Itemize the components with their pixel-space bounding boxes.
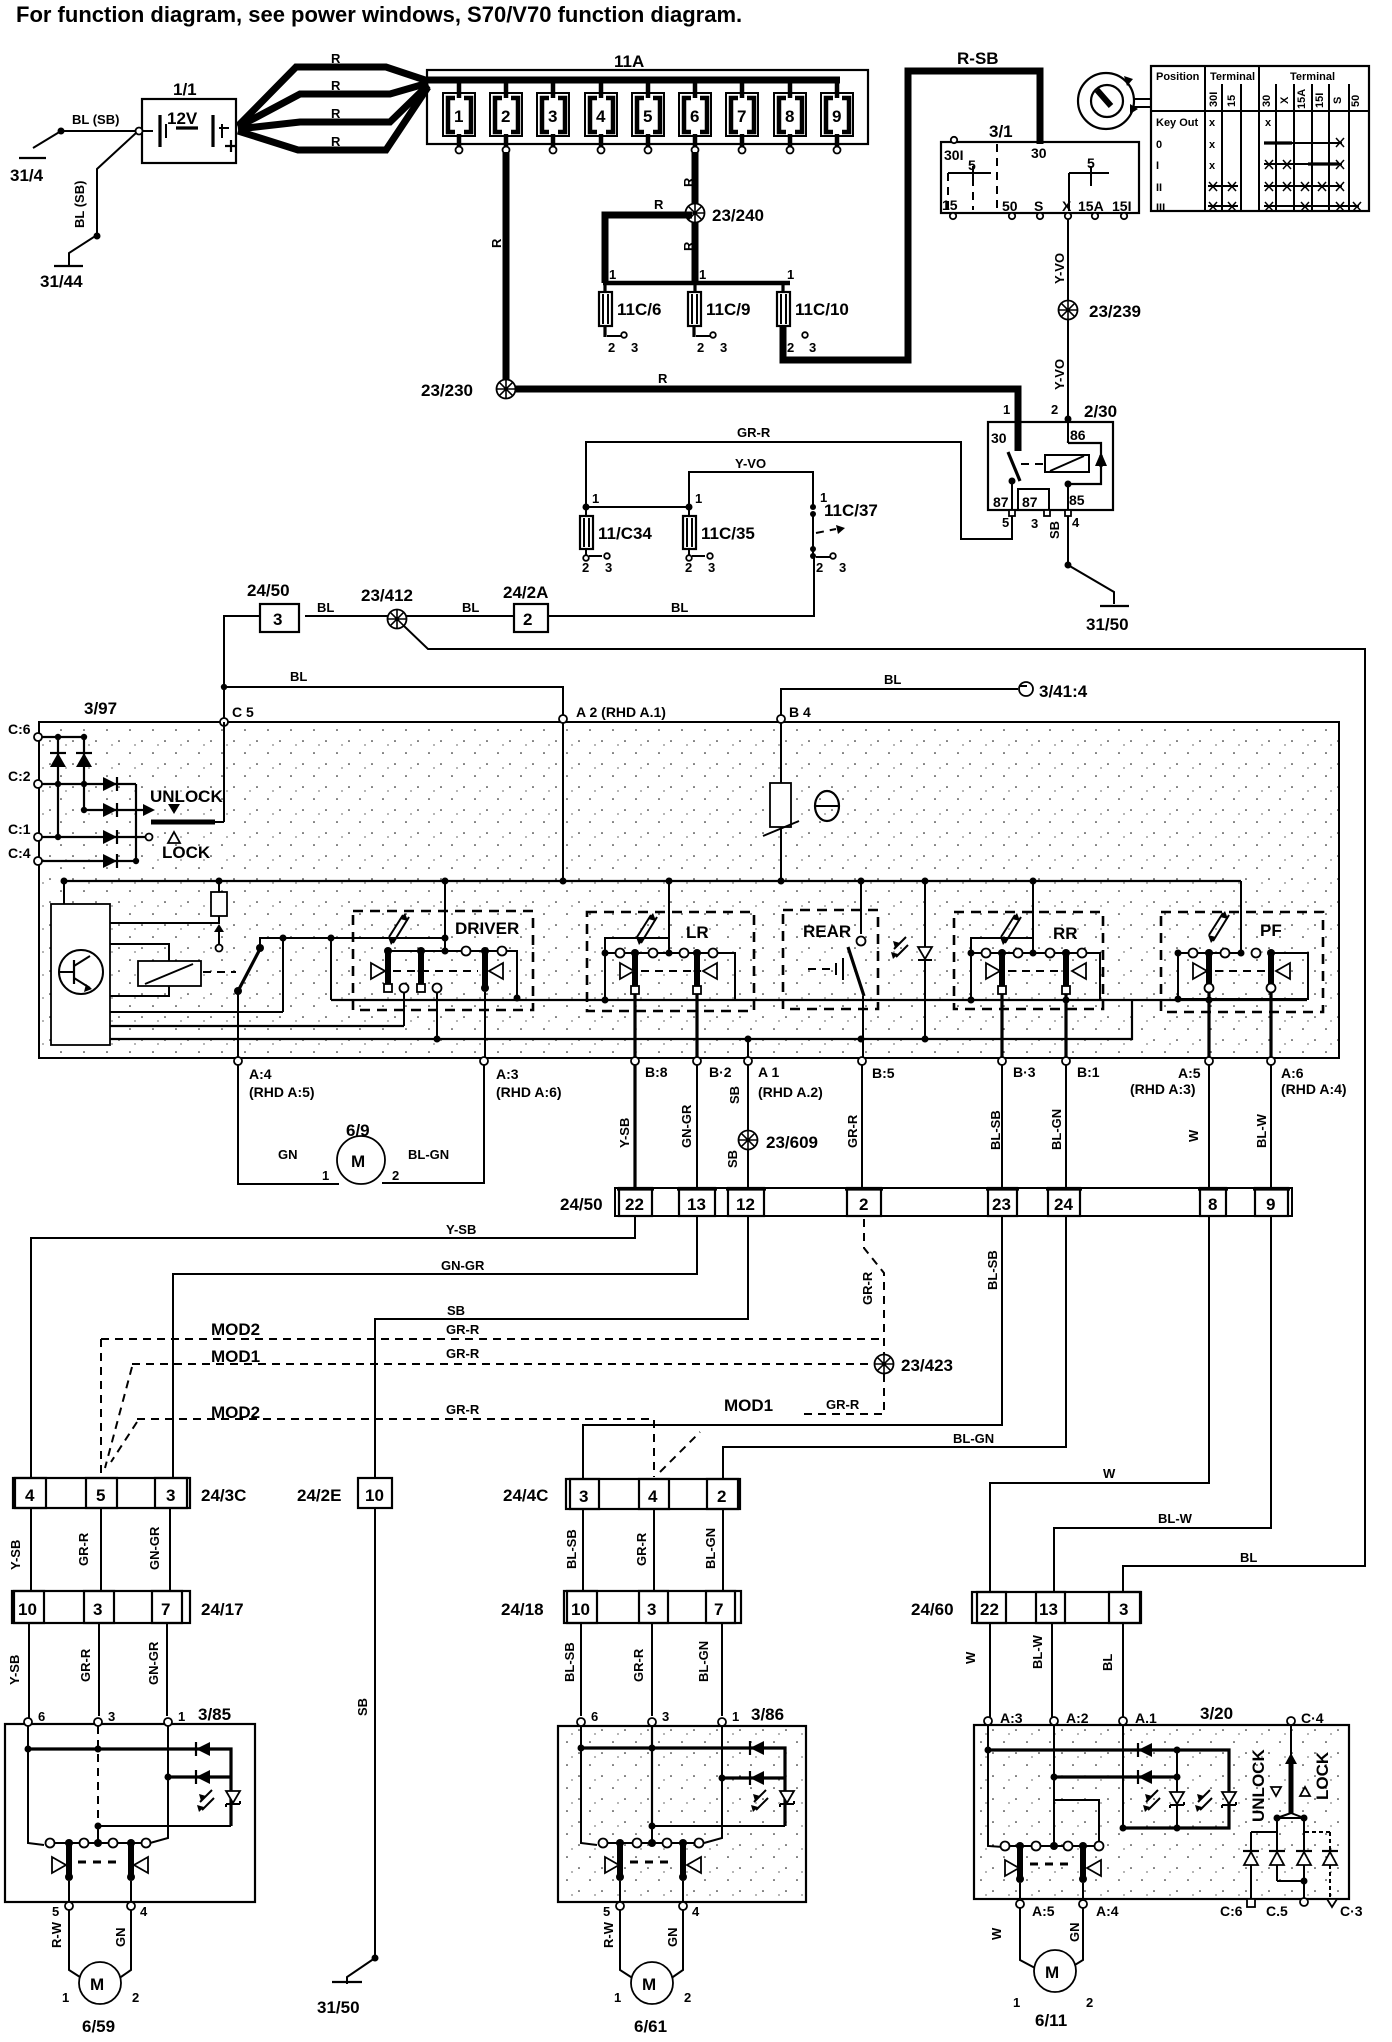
svg-text:SB: SB — [355, 1698, 370, 1716]
svg-text:C:1: C:1 — [8, 821, 31, 837]
svg-text:R-SB: R-SB — [957, 49, 999, 68]
pin B:1 — [1062, 1057, 1100, 1080]
svg-text:A:4: A:4 — [1096, 1903, 1119, 1919]
DRIVER switch — [353, 881, 533, 1058]
svg-text:BL: BL — [884, 672, 901, 687]
svg-text:R: R — [658, 371, 668, 386]
svg-text:SB: SB — [1047, 521, 1062, 539]
svg-text:1: 1 — [62, 1990, 69, 2005]
svg-text:23/609: 23/609 — [766, 1133, 818, 1152]
svg-text:24: 24 — [1054, 1195, 1073, 1214]
svg-text:2: 2 — [523, 610, 532, 629]
splice 23/239 — [1059, 301, 1142, 322]
svg-text:III: III — [1156, 202, 1165, 214]
svg-text:C:4: C:4 — [8, 845, 31, 861]
svg-text:4: 4 — [140, 1904, 148, 1919]
svg-text:3/1: 3/1 — [989, 122, 1013, 141]
wire R-SB from 11C/10 up to 3/1 term 30 — [783, 49, 1040, 360]
connector 24/2A pin 2 — [503, 583, 548, 632]
svg-text:13: 13 — [1039, 1600, 1058, 1619]
svg-text:2: 2 — [132, 1990, 139, 2005]
svg-text:15: 15 — [1226, 95, 1238, 107]
svg-text:M: M — [351, 1152, 365, 1171]
svg-text:C:6: C:6 — [1220, 1903, 1243, 1919]
svg-text:9: 9 — [1266, 1195, 1275, 1214]
svg-text:PF: PF — [1260, 921, 1282, 940]
diode D5 right — [103, 830, 117, 844]
wire BL (SB) to 31/4 — [33, 112, 135, 148]
switch contacts 3/85 — [46, 1839, 151, 1920]
svg-text:1/1: 1/1 — [173, 80, 197, 99]
svg-text:GN-GR: GN-GR — [679, 1104, 694, 1148]
svg-text:30I: 30I — [1208, 92, 1220, 107]
splice 23/240 — [686, 204, 765, 226]
svg-text:3: 3 — [1031, 516, 1038, 531]
svg-text:BL: BL — [671, 600, 688, 615]
wires 24/4C to 24/18 — [564, 1509, 723, 1591]
svg-text:C·4: C·4 — [1301, 1710, 1324, 1726]
svg-text:7: 7 — [161, 1600, 170, 1619]
pin C:4 — [8, 845, 42, 865]
svg-text:30I: 30I — [944, 147, 963, 163]
svg-text:R: R — [331, 106, 341, 121]
svg-text:GR-R: GR-R — [826, 1397, 860, 1412]
wire 11/C34 to 11C/35 pin1 — [586, 506, 689, 508]
zener 3/20 a — [1143, 1790, 1184, 1812]
MOD1 leader — [660, 1374, 884, 1472]
svg-text:(RHD A.2): (RHD A.2) — [758, 1084, 823, 1100]
svg-text:1: 1 — [732, 1709, 739, 1724]
svg-text:15A: 15A — [1078, 198, 1104, 214]
svg-text:GR-R: GR-R — [845, 1114, 860, 1148]
splice 23/423 — [875, 1355, 954, 1376]
module 3/20 — [974, 1704, 1349, 1899]
svg-text:2: 2 — [582, 560, 589, 575]
ignition switch 3/1 — [941, 122, 1139, 219]
fuse 7 — [726, 78, 758, 154]
svg-text:3: 3 — [605, 560, 612, 575]
key switch arm — [234, 935, 449, 1013]
svg-text:2: 2 — [501, 107, 510, 126]
svg-text:BL-W: BL-W — [1254, 1113, 1269, 1148]
fuse 5 — [632, 78, 664, 154]
svg-text:DRIVER: DRIVER — [455, 919, 519, 938]
svg-text:BL-W: BL-W — [1158, 1511, 1193, 1526]
pins C:6 C.5 C:3 — [1220, 1898, 1363, 1919]
wire BL 24/50 to C5 / A2 — [221, 600, 563, 722]
svg-text:R: R — [331, 51, 341, 66]
svg-text:5: 5 — [643, 107, 652, 126]
svg-text:BL-SB: BL-SB — [988, 1110, 1003, 1150]
wire GR-R B:5 to 24/50 — [845, 1065, 862, 1188]
svg-text:UNLOCK: UNLOCK — [1249, 1749, 1268, 1822]
wire R fuse6 down — [681, 152, 696, 283]
connector 24/60 — [911, 1592, 1141, 1623]
svg-text:BL-SB: BL-SB — [985, 1250, 1000, 1290]
svg-text:3/20: 3/20 — [1200, 1704, 1233, 1723]
svg-text:24/2A: 24/2A — [503, 583, 548, 602]
fuse 8 — [774, 78, 806, 154]
svg-text:W: W — [1103, 1466, 1116, 1481]
svg-text:4: 4 — [692, 1904, 700, 1919]
svg-text:50: 50 — [1002, 198, 1018, 214]
wire Y-VO loop — [689, 456, 813, 507]
node C5 — [220, 704, 254, 726]
svg-text:A:3: A:3 — [496, 1066, 519, 1082]
svg-text:11C/9: 11C/9 — [706, 300, 750, 319]
svg-text:GR-R: GR-R — [737, 425, 771, 440]
svg-text:GR-R: GR-R — [76, 1532, 91, 1566]
svg-text:6: 6 — [38, 1709, 45, 1724]
svg-text:8: 8 — [785, 107, 794, 126]
diode D3 right — [103, 777, 117, 791]
svg-text:31/44: 31/44 — [40, 272, 83, 291]
diode matrix rows — [42, 734, 148, 864]
wire BL-GN 24/50 to 24/4C — [723, 1216, 1066, 1478]
svg-text:C:2: C:2 — [8, 768, 31, 784]
svg-text:S: S — [1034, 198, 1043, 214]
svg-text:5: 5 — [52, 1904, 59, 1919]
svg-text:S: S — [1332, 97, 1344, 104]
svg-text:85: 85 — [1069, 492, 1085, 508]
diode D2 up — [76, 753, 92, 767]
motor 6/61 — [601, 1910, 691, 2036]
svg-text:1: 1 — [609, 267, 616, 282]
svg-text:A 1: A 1 — [758, 1064, 779, 1080]
connector 24/4C — [503, 1479, 740, 1509]
connector 11C/10 — [777, 283, 849, 355]
svg-text:x: x — [1209, 139, 1216, 151]
svg-text:5: 5 — [603, 1904, 610, 1919]
svg-text:BL: BL — [317, 600, 334, 615]
wire battery to fusebox (4 thick R wires) — [238, 51, 428, 150]
ground 31/50 top — [1086, 606, 1129, 634]
svg-text:1: 1 — [614, 1990, 621, 2005]
svg-text:9: 9 — [832, 107, 841, 126]
svg-text:15A: 15A — [1296, 89, 1308, 109]
fuse 9 — [821, 78, 853, 154]
svg-text:R-W: R-W — [49, 1921, 64, 1948]
svg-text:4: 4 — [648, 1487, 658, 1506]
svg-text:4: 4 — [1072, 515, 1080, 530]
module 3/86 — [558, 1705, 806, 1902]
svg-text:M: M — [642, 1975, 656, 1994]
LR switch — [587, 881, 754, 1058]
pin B:5 — [858, 1057, 895, 1081]
svg-text:M: M — [1045, 1963, 1059, 1982]
svg-text:C.5: C.5 — [1266, 1903, 1288, 1919]
svg-text:X: X — [1279, 96, 1291, 104]
svg-text:C 5: C 5 — [232, 704, 254, 720]
wire GR-R dashed 24/50 pin2 — [860, 1219, 884, 1354]
svg-text:7: 7 — [737, 107, 746, 126]
wire BL-GN B:1 to 24/50 — [1049, 1065, 1066, 1188]
svg-text:A:6: A:6 — [1281, 1065, 1304, 1081]
svg-text:C:6: C:6 — [8, 721, 31, 737]
svg-text:3: 3 — [708, 560, 715, 575]
wire A2 down to bus — [562, 723, 564, 881]
svg-text:13: 13 — [687, 1195, 706, 1214]
lock lever 3/20 — [1249, 1725, 1332, 1822]
connector 24/17 — [12, 1591, 244, 1623]
svg-text:3: 3 — [647, 1600, 656, 1619]
svg-text:A.1: A.1 — [1135, 1710, 1157, 1726]
pin A:3 — [480, 1057, 562, 1100]
wire Y-SB 24/50 to 24/3C — [31, 1216, 635, 1478]
battery 1/1 — [136, 80, 238, 163]
svg-text:3: 3 — [108, 1709, 115, 1724]
pin B:8 — [631, 1057, 668, 1080]
relay 2/30 — [988, 402, 1117, 531]
zener 3/20 b — [1195, 1790, 1236, 1812]
svg-text:W: W — [989, 1927, 1004, 1940]
MOD2 row 1 — [101, 1320, 884, 1478]
svg-text:GR-R: GR-R — [446, 1402, 480, 1417]
svg-text:0: 0 — [1156, 139, 1162, 151]
diode 3/85 top — [196, 1742, 210, 1756]
ground 31/50 bottom — [317, 1982, 362, 2017]
svg-text:W: W — [1186, 1129, 1201, 1142]
svg-text:MOD2: MOD2 — [211, 1320, 260, 1339]
pin C:2 — [8, 768, 42, 788]
svg-text:3: 3 — [273, 610, 282, 629]
svg-text:3: 3 — [720, 340, 727, 355]
svg-text:50: 50 — [1350, 95, 1362, 107]
svg-text:2: 2 — [608, 340, 615, 355]
bottom line L3 — [110, 1000, 1132, 1043]
svg-text:2: 2 — [1086, 1995, 1093, 2010]
key cylinder box — [51, 881, 110, 1045]
svg-text:24/50: 24/50 — [560, 1195, 603, 1214]
svg-text:BL-SB: BL-SB — [564, 1529, 579, 1569]
diode array 3/20 d1 — [1243, 1832, 1277, 1899]
svg-text:2: 2 — [816, 560, 823, 575]
svg-text:2/30: 2/30 — [1084, 402, 1117, 421]
ground 31/4 — [10, 158, 46, 185]
svg-text:2: 2 — [859, 1195, 868, 1214]
svg-text:BL-W: BL-W — [1030, 1634, 1045, 1669]
node A2 — [559, 704, 666, 723]
pin A:6 — [1267, 1057, 1347, 1097]
svg-text:2: 2 — [685, 560, 692, 575]
svg-text:SB: SB — [447, 1303, 465, 1318]
motor 6/59 — [49, 1910, 139, 2036]
svg-text:B:1: B:1 — [1077, 1064, 1100, 1080]
svg-text:Y-VO: Y-VO — [735, 456, 766, 471]
svg-text:31/50: 31/50 — [317, 1998, 360, 2017]
svg-text:I: I — [1156, 160, 1159, 172]
svg-text:2: 2 — [1051, 402, 1058, 417]
svg-text:II: II — [1156, 182, 1162, 194]
svg-text:GN: GN — [278, 1147, 298, 1162]
diode 3/85 mid — [196, 1770, 210, 1784]
svg-text:BL-GN: BL-GN — [703, 1528, 718, 1569]
svg-text:Y-SB: Y-SB — [7, 1655, 22, 1685]
svg-text:GN-GR: GN-GR — [147, 1526, 162, 1570]
svg-text:15I: 15I — [1314, 93, 1326, 108]
svg-text:A:4: A:4 — [249, 1066, 272, 1082]
svg-text:11/C34: 11/C34 — [598, 524, 652, 543]
RR switch — [954, 881, 1103, 1058]
wire W 24/50 to 24/60 — [990, 1216, 1209, 1592]
wire BL (SB) to 31/44 — [69, 133, 136, 266]
svg-text:(RHD A:3): (RHD A:3) — [1130, 1081, 1196, 1097]
svg-text:24/17: 24/17 — [201, 1600, 244, 1619]
svg-text:BL-SB: BL-SB — [562, 1642, 577, 1682]
svg-text:87: 87 — [1022, 494, 1038, 510]
zener 3/85 — [197, 1790, 240, 1812]
svg-text:15: 15 — [942, 197, 958, 213]
svg-text:BL (SB): BL (SB) — [72, 112, 119, 127]
svg-text:x: x — [1209, 160, 1216, 172]
svg-text:10: 10 — [571, 1600, 590, 1619]
svg-text:X: X — [1062, 198, 1072, 214]
svg-text:W: W — [963, 1651, 978, 1664]
svg-text:UNLOCK: UNLOCK — [150, 787, 223, 806]
connector 24/50 pin 3 — [247, 581, 299, 632]
wire BL 23/412 to 24/2A — [305, 600, 514, 616]
motor 6/11 — [989, 1908, 1093, 2030]
switch contacts 3/20 — [1001, 1842, 1119, 1920]
svg-text:8: 8 — [1208, 1195, 1217, 1214]
svg-text:3/86: 3/86 — [751, 1705, 784, 1724]
svg-text:4: 4 — [25, 1486, 35, 1505]
svg-text:GR-R: GR-R — [634, 1532, 649, 1566]
svg-text:22: 22 — [980, 1600, 999, 1619]
PF switch — [1161, 881, 1323, 1058]
svg-text:1: 1 — [699, 267, 706, 282]
svg-text:A:2: A:2 — [1066, 1710, 1089, 1726]
fuse 4 — [585, 78, 617, 154]
svg-text:3: 3 — [839, 560, 846, 575]
svg-text:B·2: B·2 — [709, 1064, 732, 1080]
svg-text:3: 3 — [662, 1709, 669, 1724]
svg-text:Y-SB: Y-SB — [446, 1222, 476, 1237]
svg-text:(RHD A:4): (RHD A:4) — [1281, 1081, 1347, 1097]
svg-text:A:5: A:5 — [1032, 1903, 1055, 1919]
fuse 6 — [679, 78, 711, 154]
wire GN-GR B:2 to 24/50 — [679, 1065, 697, 1188]
fuse box 11A — [427, 52, 868, 144]
wire GN-GR 24/50 to 24/3C — [173, 1216, 697, 1478]
svg-text:6/61: 6/61 — [634, 2017, 667, 2036]
svg-text:Y-VO: Y-VO — [1052, 359, 1067, 390]
svg-text:BL: BL — [1100, 1654, 1115, 1671]
connector 24/18 — [501, 1591, 741, 1623]
svg-text:REAR: REAR — [803, 922, 851, 941]
svg-text:3/41:4: 3/41:4 — [1039, 682, 1088, 701]
splice 23/609 — [739, 1131, 819, 1153]
wire R fuse2 down — [489, 152, 506, 389]
wire BL 24/2A to 11C/37 — [548, 558, 814, 616]
svg-text:LOCK: LOCK — [162, 843, 211, 862]
svg-text:Y-SB: Y-SB — [8, 1540, 23, 1570]
resistor R — [211, 881, 227, 952]
svg-text:3: 3 — [579, 1487, 588, 1506]
svg-text:BL-GN: BL-GN — [1049, 1109, 1064, 1150]
connector 11C/9 — [688, 283, 750, 355]
svg-text:A 2 (RHD A.1): A 2 (RHD A.1) — [576, 704, 666, 720]
svg-text:11C/6: 11C/6 — [617, 300, 661, 319]
svg-text:30: 30 — [1261, 95, 1273, 107]
wire BL-W A:6 to 24/50 — [1254, 1065, 1271, 1188]
svg-text:7: 7 — [714, 1600, 723, 1619]
svg-text:B:5: B:5 — [872, 1065, 895, 1081]
svg-text:BL (SB): BL (SB) — [72, 181, 87, 228]
svg-text:3: 3 — [809, 340, 816, 355]
svg-text:3: 3 — [166, 1486, 175, 1505]
wire branch to 11C/6 — [605, 197, 692, 283]
wire pin1 bus 11C — [603, 267, 794, 283]
svg-text:23/230: 23/230 — [421, 381, 473, 400]
svg-text:For function diagram, see powe: For function diagram, see power windows,… — [16, 2, 742, 27]
svg-text:BL: BL — [1240, 1550, 1257, 1565]
svg-text:Terminal: Terminal — [1210, 71, 1255, 83]
diode D6 right — [103, 854, 117, 868]
svg-text:6/11: 6/11 — [1035, 2011, 1067, 2030]
unlock arrow — [143, 787, 223, 816]
svg-text:BL-GN: BL-GN — [408, 1147, 449, 1162]
wire GR-R relay pin5 loop — [586, 425, 1012, 539]
fuse 1 — [443, 78, 475, 154]
svg-text:M: M — [90, 1975, 104, 1994]
bottom line L1 — [331, 999, 1307, 1001]
connector 3/41:4 — [1019, 682, 1088, 701]
wire BL long right side — [404, 626, 1365, 1592]
inner bus — [61, 878, 1242, 885]
svg-text:23/240: 23/240 — [712, 206, 764, 225]
diode 3/20 mid — [1138, 1770, 1152, 1784]
svg-text:1: 1 — [322, 1168, 329, 1183]
svg-text:Position: Position — [1156, 71, 1200, 83]
wire Y-VO from X to relay pin 2 — [1052, 219, 1072, 423]
svg-text:3: 3 — [631, 340, 638, 355]
REAR switch — [783, 881, 878, 1058]
svg-text:22: 22 — [625, 1195, 644, 1214]
svg-text:1: 1 — [454, 107, 463, 126]
svg-text:(RHD A:5): (RHD A:5) — [249, 1084, 315, 1100]
svg-text:GN-GR: GN-GR — [441, 1258, 485, 1273]
svg-text:11C/35: 11C/35 — [701, 524, 755, 543]
connector 11C/37 — [810, 490, 878, 575]
wire SB relay pin4 to ground 31/50 — [1047, 516, 1114, 604]
svg-text:SB: SB — [725, 1150, 740, 1168]
svg-text:2: 2 — [787, 340, 794, 355]
wire B4 down to bus — [780, 723, 782, 881]
svg-text:GN-GR: GN-GR — [146, 1641, 161, 1685]
wires 24/3C to 24/17 — [8, 1508, 170, 1591]
svg-text:1: 1 — [695, 491, 702, 506]
diode 3/20 top — [1138, 1743, 1152, 1757]
splice 23/412 — [361, 586, 413, 629]
module 3/85 — [5, 1705, 255, 1902]
module 3/97 — [39, 699, 1339, 1058]
connector 11C/35 — [683, 491, 755, 575]
svg-text:3: 3 — [93, 1600, 102, 1619]
svg-text:6: 6 — [690, 107, 699, 126]
svg-text:30: 30 — [991, 430, 1007, 446]
svg-text:2: 2 — [697, 340, 704, 355]
svg-text:23: 23 — [992, 1195, 1011, 1214]
wire BL-SB B:3 to 24/50 — [988, 1065, 1003, 1188]
svg-text:23/412: 23/412 — [361, 586, 413, 605]
svg-text:86: 86 — [1070, 427, 1086, 443]
svg-text:2: 2 — [392, 1168, 399, 1183]
wire R splice to relay — [515, 371, 1018, 451]
wire Y-SB B:8 to 24/50 — [617, 1065, 635, 1188]
zener 3/86 — [751, 1790, 794, 1812]
connector 11C/6 — [599, 283, 661, 355]
